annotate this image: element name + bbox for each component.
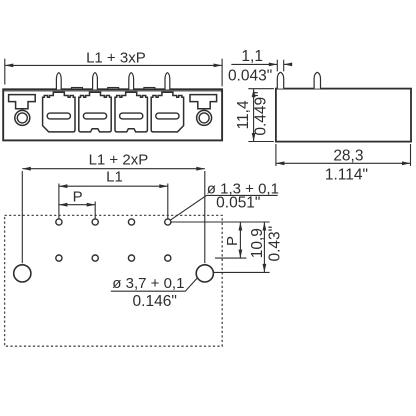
dimension L1+3xP: right extension line: [221, 59, 223, 87]
svg-text:10,9: 10,9: [249, 228, 266, 258]
dimension 1,1: right extension tick: [283, 60, 285, 72]
drilling plan: pin hole row1 #1 (d=1.3): [56, 219, 62, 225]
dimension 10,9: dimension line: [263, 222, 265, 272]
front view: solder pin 2: [93, 73, 98, 90]
side view: housing body: [276, 89, 411, 142]
dimension L1+2xP: dimension line: [22, 168, 205, 170]
dimension 11,4: top extension line: [248, 88, 274, 90]
extension line from hole row2 (right side): [215, 257, 246, 259]
front view: raised latch pad 2 on top edge: [108, 88, 119, 90]
front view: contact slot 2: [83, 113, 106, 119]
front view: raised latch pad 3 on top edge: [144, 88, 155, 90]
drilling plan: pin hole row1 #4 (d=1.3): [165, 219, 171, 225]
dimension 28,3: dimension line: [276, 162, 411, 164]
connector front view: outer housing body: [3, 89, 222, 140]
front view: solder pin 4: [165, 73, 170, 90]
drilling plan: pin hole row2 #1 (d=1.3): [56, 255, 62, 261]
leader line for mounting hole diameter: [111, 278, 198, 291]
extension line from mounting hole center (right side): [214, 271, 270, 273]
front view: left flange screw hole (outer ring): [15, 110, 30, 125]
extension line from hole row1 (right side): [171, 221, 269, 223]
dimension P: dimension line: [59, 204, 95, 206]
dimension 28,3: right extension line: [410, 144, 412, 166]
dimension 11,4: bottom extension line: [248, 141, 274, 143]
dimension 1,1: dimension line with outside arrows: [231, 63, 277, 65]
front view: left flange keying cutout: [9, 95, 36, 109]
front view: contact module 3 outline: [115, 92, 147, 132]
svg-text:L1 + 2xP: L1 + 2xP: [89, 152, 149, 169]
drilling plan: pin hole row2 #3 (d=1.3): [128, 255, 134, 261]
side view: solder pin row 1: [277, 72, 283, 88]
dimension L1+2xP: right extension line to right mounting hole: [204, 171, 206, 263]
front view: right flange keying cutout: [190, 95, 217, 109]
front view: contact slot 3: [120, 113, 143, 119]
svg-text:0.43": 0.43": [267, 226, 284, 262]
svg-text:1.114": 1.114": [325, 166, 368, 183]
svg-text:0.043": 0.043": [228, 67, 272, 84]
drilling plan: right mounting hole (d=3.7): [196, 265, 213, 282]
front view: contact module 4 outline: [151, 92, 183, 132]
side view: solder pin row 2: [314, 72, 320, 88]
front view: left flange screw hole (inner ring): [17, 113, 27, 123]
svg-text:L1: L1: [106, 168, 123, 185]
svg-text:0.051": 0.051": [216, 195, 260, 212]
svg-text:P: P: [224, 236, 241, 246]
svg-text:1,1: 1,1: [241, 48, 263, 65]
front view: contact slot 1: [47, 113, 70, 119]
svg-text:P: P: [73, 188, 83, 205]
svg-text:L1 + 3xP: L1 + 3xP: [86, 49, 146, 66]
front view: solder pin 3: [129, 73, 134, 90]
front view: inner top edge line of housing: [3, 90, 222, 92]
dimension L1+3xP: left arrowhead: [5, 64, 14, 68]
dimension L1+2xP: left extension line to left mounting hole: [21, 171, 23, 263]
leader line for pin hole diameter: [171, 195, 278, 220]
front view: solder pin 1: [56, 73, 61, 90]
drilling plan: pin hole row1 #3 (d=1.3): [128, 219, 134, 225]
front view: contact slot 4: [156, 113, 179, 119]
svg-text:ø 3,7 + 0,1: ø 3,7 + 0,1: [112, 275, 184, 292]
svg-text:11,4: 11,4: [235, 100, 252, 129]
dimension L1: dimension line: [59, 185, 168, 187]
svg-text:0.449": 0.449": [253, 91, 270, 135]
drilling plan: pin hole row2 #2 (d=1.3): [92, 255, 98, 261]
dimension L1+3xP: left extension line: [4, 59, 6, 85]
drilling plan: PCB outline (dashed): [5, 215, 223, 346]
front view: contact module 2 outline: [79, 92, 111, 132]
front view: raised latch pad 1 on top edge: [72, 88, 83, 90]
dimension L1+3xP: right arrowhead: [214, 64, 223, 68]
dimension 1,1: left extension tick: [276, 60, 278, 72]
dimension L1: left extension line (hole 1): [58, 184, 60, 219]
dimension L1: right extension line (hole 4): [167, 184, 169, 219]
svg-text:0.146": 0.146": [133, 293, 177, 310]
drilling plan: left mounting hole (d=3.7): [14, 265, 31, 282]
svg-text:28,3: 28,3: [333, 148, 363, 165]
dimension P vertical: dimension line: [239, 222, 241, 258]
dimension 11,4: dimension line: [253, 89, 255, 142]
front view: contact module 1 outline: [43, 92, 75, 132]
dimension L1+3xP: dimension line: [5, 64, 222, 66]
drilling plan: pin hole row2 #4 (d=1.3): [165, 255, 171, 261]
front view: right flange screw hole (outer ring): [197, 110, 212, 125]
front view: right flange screw hole (inner ring): [199, 113, 209, 123]
dimension P: right extension line (hole 2): [94, 202, 96, 219]
drilling plan: pin hole row1 #2 (d=1.3): [92, 219, 98, 225]
dimension 28,3: left extension line: [275, 144, 277, 166]
